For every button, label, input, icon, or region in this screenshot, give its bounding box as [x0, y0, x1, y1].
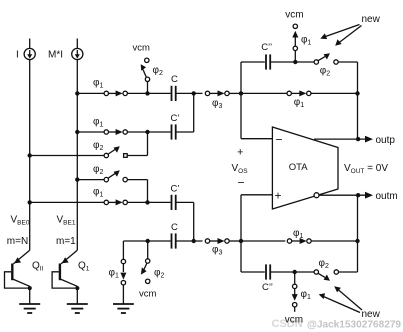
wire bottom feedback middle: [271, 271, 314, 273]
node outm: [356, 193, 360, 197]
switch S3 phi2 vcm top-left: [141, 58, 150, 92]
wire phi3 to left OTA rail: [229, 92, 241, 94]
wire right rail bottom: [357, 195, 359, 272]
switch S16 phi1 vcm bottom: [292, 272, 298, 312]
annotation arrow new top 1: [320, 25, 359, 40]
wire row5 to cap: [127, 201, 170, 203]
wire row2 to cap: [127, 131, 170, 133]
wire top main to right rail: [311, 92, 358, 94]
svg-text:OTA: OTA: [289, 162, 308, 173]
wire row5: [30, 201, 104, 203]
node on M*I rail row1: [75, 91, 79, 95]
svg-text:+: +: [275, 189, 282, 203]
wire M*I rail: [76, 60, 78, 251]
switch S13 phi1 feedback top: [287, 90, 311, 96]
capacitor C'' top: [266, 54, 270, 69]
wire right rail top: [357, 62, 359, 139]
ground under Q1: [67, 304, 88, 313]
node right of C: [192, 91, 196, 95]
op-amp OTA: [272, 127, 338, 209]
wire top main right: [241, 92, 287, 94]
svg-text:I: I: [16, 50, 19, 61]
svg-text:outm: outm: [376, 191, 398, 202]
wire cap C' right: [177, 131, 194, 133]
node bottom feedback: [293, 270, 297, 274]
wire top feedback middle: [271, 61, 314, 63]
switch S9 phi1 to ground: [120, 241, 126, 304]
node on M*I rail row2: [75, 130, 79, 134]
svg-text:new: new: [362, 14, 381, 25]
svg-text:m=1: m=1: [56, 236, 76, 247]
switch S10 phi2 vcm bottom-left: [141, 241, 150, 283]
switch S4 phi1 row2: [104, 129, 127, 135]
capacitor C' lower: [172, 195, 176, 210]
node on M*I rail row4: [75, 177, 79, 181]
capacitor C'' bottom: [266, 264, 270, 279]
wire top feedback right: [338, 61, 357, 63]
wire row4 down to node C: [147, 180, 149, 203]
switch S11 phi2 top: [314, 53, 338, 64]
wire I rail: [29, 60, 31, 251]
svg-text:@Jack15302768279: @Jack15302768279: [307, 319, 401, 330]
wire row3: [30, 155, 104, 157]
svg-text:vcm: vcm: [139, 288, 157, 299]
switch S5 phi2 row3: [104, 146, 127, 158]
wire bottom main left: [123, 240, 170, 242]
node D bottom main: [146, 239, 150, 243]
switch S12 phi1 vcm top: [292, 24, 298, 60]
svg-text:m=N: m=N: [7, 236, 28, 247]
transistor QII: [5, 250, 32, 304]
node right rail top main: [355, 91, 359, 95]
arrow outp: [365, 136, 373, 143]
wire bottom feedback left: [241, 271, 265, 273]
svg-text:−: −: [238, 176, 245, 190]
current source I1 (I): [24, 39, 35, 60]
transistor Q1: [52, 250, 79, 304]
annotation arrow new top 2: [335, 26, 361, 46]
node left rail bottom main: [239, 239, 243, 243]
switch S15 phi2 bottom: [314, 270, 338, 281]
wire vertical join to row1: [193, 93, 195, 132]
wire phi3 bottom to rail: [229, 240, 241, 242]
wire top feedback left: [241, 61, 265, 63]
capacitor C bottom: [172, 233, 176, 248]
svg-text:C’: C’: [171, 183, 180, 194]
svg-text:outp: outp: [376, 135, 396, 146]
wire left OTA rail bottom: [240, 195, 242, 272]
wire row2: [77, 131, 104, 133]
annotation arrow new bottom 2: [334, 286, 362, 310]
node right of bottom C: [192, 239, 196, 243]
output bubble: [314, 193, 319, 198]
switch S1 phi1 row1: [104, 90, 127, 96]
svg-text:vcm: vcm: [285, 10, 303, 21]
switch S7 phi1 row5: [104, 199, 127, 205]
annotation arrow new bottom 1: [319, 293, 360, 312]
svg-text:C’’: C’’: [262, 282, 273, 293]
ground under S9: [113, 304, 134, 313]
node C row5: [145, 200, 149, 204]
current source I2 (M*I): [72, 39, 83, 60]
wire bottom feedback right: [339, 271, 358, 273]
capacitor C top: [172, 86, 176, 101]
node right rail bottom main: [355, 239, 359, 243]
wire bottom main right: [241, 240, 285, 242]
wire bottom main to right rail: [311, 240, 357, 242]
switch S6 phi2 row4: [104, 170, 127, 182]
wire left OTA rail top: [240, 62, 242, 139]
node A row1: [145, 91, 149, 95]
wire row3 up to node B: [147, 132, 149, 156]
wire cap C' lower right: [177, 201, 194, 203]
wire OTA minus input: [241, 138, 272, 140]
svg-text:C’’: C’’: [261, 42, 272, 53]
switch S8 phi3 bottom: [205, 238, 229, 244]
wire cap C to phi3: [177, 92, 203, 94]
svg-text:−: −: [276, 133, 283, 147]
wire vertical join to bottom main: [193, 202, 195, 241]
node on I rail row5: [28, 200, 32, 204]
arrow outm: [365, 192, 373, 199]
wire row4 to node column: [127, 179, 147, 181]
wire row1: [77, 92, 104, 94]
wire row3 to node column: [127, 155, 147, 157]
svg-text:M*I: M*I: [48, 50, 63, 61]
svg-text:C: C: [171, 222, 178, 233]
node left rail top main: [239, 91, 243, 95]
wire outm: [319, 194, 366, 196]
switch S14 phi1 feedback bottom: [287, 238, 311, 244]
svg-text:C’: C’: [171, 113, 180, 124]
svg-text:C: C: [171, 74, 178, 85]
switch S2 phi3 top: [205, 90, 229, 96]
capacitor C' upper: [172, 124, 176, 139]
svg-text:vcm: vcm: [285, 315, 303, 326]
wire row1 to cap: [127, 92, 170, 94]
wire row4: [77, 179, 104, 181]
node on I rail row3: [28, 153, 32, 157]
wire outp: [314, 138, 366, 140]
node top feedback: [293, 60, 297, 64]
svg-text:+: +: [237, 147, 243, 159]
svg-text:vcm: vcm: [133, 43, 151, 54]
ground under QII: [19, 304, 40, 313]
wire OTA plus input: [241, 194, 272, 196]
svg-text:VOUT = 0V: VOUT = 0V: [344, 163, 388, 175]
node outp: [356, 137, 360, 141]
svg-text:new: new: [362, 309, 381, 320]
wire cap C bottom right: [177, 240, 203, 242]
node B row2: [145, 130, 149, 134]
